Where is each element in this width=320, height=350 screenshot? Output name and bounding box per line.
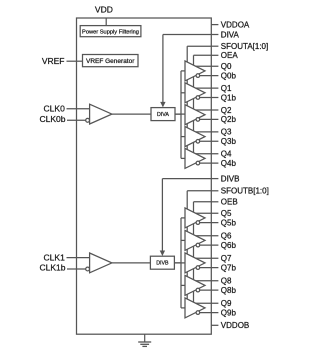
arrow into DIVA [160,102,165,108]
wire Q3b out [200,140,219,142]
svg-text:Power Supply Filtering: Power Supply Filtering [82,30,139,36]
pin Q8 label [221,277,232,286]
pin Q2b label [221,115,237,124]
input buffer U2 [90,253,112,273]
pin OEB [211,198,237,207]
pin Q1b label [221,93,237,102]
pin Q6 label [221,232,232,241]
ground [138,334,151,346]
wire CLK0b [67,119,86,121]
wire Q8b out [200,289,219,291]
inverting bubble Q1b [196,96,200,100]
pin Q2 label [221,106,232,115]
inverting bubble Q8b [196,288,200,292]
pin Q8b label [221,286,237,295]
wire Q8 out [196,280,219,282]
wire Q3 out [196,131,219,133]
input buffer U1 [90,104,112,124]
svg-text:CLK0: CLK0 [44,104,66,114]
output buffer A1 [185,83,205,103]
inverting bubble Q6b [196,243,200,247]
pin VDDOB [211,321,249,330]
pin VREF label [42,56,65,66]
svg-text:SFOUTB[1:0]: SFOUTB[1:0] [221,187,269,196]
svg-text:Q7b: Q7b [221,263,237,272]
svg-text:Q3: Q3 [221,128,232,137]
output buffer B2 [185,253,205,273]
pin CLK1b label [40,263,66,273]
net OEB bus [194,202,212,302]
inverting bubble Q5b [196,221,200,225]
svg-text:Q0b: Q0b [221,71,237,80]
svg-text:Q5b: Q5b [221,218,237,227]
wire DIVB out [174,262,185,264]
svg-text:Q4: Q4 [221,150,232,159]
wire Q4 out [196,153,219,155]
inverting bubble Q2b [196,118,200,122]
wire U2 out to DIVB [112,262,150,264]
pin Q3b label [221,137,237,146]
divider DIVB [150,256,174,269]
svg-text:CLK0b: CLK0b [40,114,66,124]
wire DIVB control [162,179,211,251]
output buffer A4 [185,148,205,168]
pin DIVA label [211,30,239,39]
svg-text:CLK1b: CLK1b [40,263,66,273]
pin SFOUTA[1:0] [211,42,268,51]
svg-text:Q8: Q8 [221,277,232,286]
wire Q7b out [200,267,219,269]
pin Q7 label [221,254,232,263]
svg-text:SFOUTA[1:0]: SFOUTA[1:0] [221,42,268,51]
wire VREF [67,60,83,62]
wire DIVA control [163,35,211,103]
inverting bubble CLK1b [86,267,90,271]
wire Q6b out [200,244,219,246]
svg-text:Q5: Q5 [221,209,232,218]
output buffer A0 [185,61,205,81]
pin Q0b label [221,71,237,80]
svg-text:VDD: VDD [95,4,113,14]
wire Q9b out [200,312,219,314]
net SFOUTB bus [187,191,211,299]
pin Q4 label [221,150,232,159]
svg-text:Q9b: Q9b [221,308,237,317]
svg-text:Q0: Q0 [221,62,232,71]
pin Q3 label [221,128,232,137]
pin Q6b label [221,241,237,250]
pin CLK0 label [44,104,66,114]
arrow into DIVB [160,251,165,257]
pin Q9b label [221,308,237,317]
svg-text:Q9: Q9 [221,299,232,308]
svg-text:VDDOA: VDDOA [221,20,250,29]
svg-text:DIVA: DIVA [221,30,240,39]
wire Q2b out [200,118,219,120]
chip outline [77,18,212,334]
pin CLK0b label [40,114,66,124]
inverting bubble Q7b [196,266,200,270]
output buffer B1 [185,230,205,250]
wire CLK1b [67,268,86,270]
wire Q0 out [196,65,219,67]
pin Q4b label [221,159,237,168]
clock bus A [175,71,186,158]
inverting bubble Q9b [196,311,200,315]
svg-text:Q6b: Q6b [221,241,237,250]
wire Q4b out [200,162,219,164]
pin Q9 label [221,299,232,308]
svg-text:OEA: OEA [221,51,239,60]
wire Q9 out [196,302,219,304]
wire Q0b out [200,75,219,77]
pin Q5 label [221,209,232,218]
output buffer B0 [185,208,205,228]
svg-text:VREF Generator: VREF Generator [86,58,135,65]
wire Q5b out [200,222,219,224]
node VDD label [95,4,113,14]
pin Q5b label [221,218,237,227]
svg-text:DIVB: DIVB [221,174,240,183]
svg-text:Q3b: Q3b [221,137,237,146]
svg-text:CLK1: CLK1 [44,252,66,262]
inverting bubble Q3b [196,140,200,144]
output buffer A3 [185,127,205,147]
wire Q1 out [196,87,219,89]
divider DIVA [151,108,175,121]
pin SFOUTB[1:0] [211,187,269,196]
net OEA bus [194,55,212,153]
pin CLK1 label [44,252,66,262]
svg-text:Q2b: Q2b [221,115,237,124]
svg-text:DIVA: DIVA [157,112,169,118]
power supply filter block [80,26,141,37]
svg-text:OEB: OEB [221,198,238,207]
wire Q1b out [200,97,219,99]
wire Q2 out [196,109,219,111]
wire CLK0 [67,108,90,110]
wire CLK1 [67,257,90,259]
svg-text:VREF: VREF [42,56,65,66]
svg-text:Q1b: Q1b [221,93,237,102]
pin OEA [211,51,238,60]
inverting bubble Q0b [196,74,200,78]
svg-text:Q2: Q2 [221,106,232,115]
inverting bubble Q4b [196,161,200,165]
wire Q7 out [196,257,219,259]
svg-text:Q7: Q7 [221,254,232,263]
pin VDDOA [211,20,250,29]
svg-text:Q4b: Q4b [221,159,237,168]
clock bus B [174,218,185,308]
output buffer B4 [185,298,205,318]
svg-text:Q8b: Q8b [221,286,237,295]
output buffer A2 [185,105,205,125]
pin Q1 label [221,84,232,93]
net SFOUTA bus [187,46,211,149]
svg-text:VDDOB: VDDOB [221,321,249,330]
pin Q7b label [221,263,237,272]
pin Q0 label [221,62,232,71]
svg-text:DIVB: DIVB [156,261,169,267]
wire U1 out to DIVA [112,113,151,115]
svg-text:Q6: Q6 [221,232,232,241]
wire VDD to filter [105,18,107,26]
pin DIVB label [211,174,239,183]
svg-text:Q1: Q1 [221,84,232,93]
wire Q6 out [196,235,219,237]
output buffer B3 [185,275,205,295]
inverting bubble CLK0b [86,118,90,122]
VREF generator block U3 [83,55,139,67]
wire Q5 out [196,212,219,214]
wire DIVA out [175,113,185,115]
